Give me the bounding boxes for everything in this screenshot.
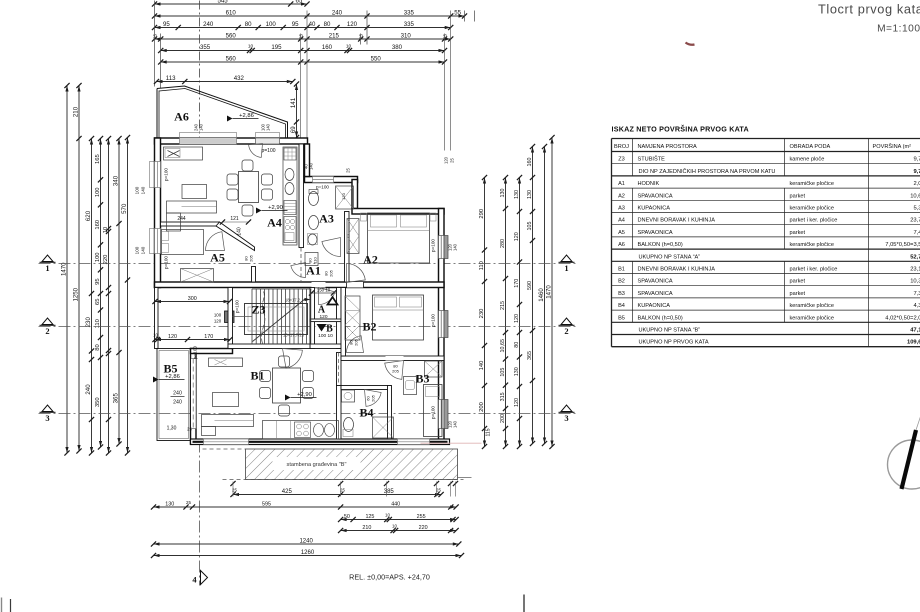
svg-text:130: 130 [165,501,174,507]
svg-text:DNEVNI BORAVAK I KUHINJA: DNEVNI BORAVAK I KUHINJA [638,267,716,273]
svg-text:215: 215 [500,301,506,310]
left page edge shadow [1,598,3,612]
svg-text:parket i ker. pločice: parket i ker. pločice [790,218,838,224]
sofa A4 [167,201,217,213]
svg-text:210: 210 [72,106,79,117]
svg-text:DIO NP ZAJEDNIČKIH PROSTORA NA: DIO NP ZAJEDNIČKIH PROSTORA NA PRVOM KAT… [639,168,776,175]
svg-text:350: 350 [95,397,101,407]
dim row bottom 1260 [154,555,462,557]
svg-text:p=100: p=100 [164,168,169,181]
section line 3-3 dash-dot [39,413,577,415]
wall B4 left vertical [337,386,342,440]
svg-text:keramičke pločice: keramičke pločice [790,315,834,321]
section marker 3 left [42,405,53,412]
svg-text:310: 310 [401,32,412,39]
coffee table B1 [213,393,239,407]
section line 1-1 dash-dot [39,263,577,265]
svg-text:545: 545 [218,0,229,4]
right dim col 1460 [544,147,546,444]
svg-text:NAMJENA PROSTORA: NAMJENA PROSTORA [638,144,698,150]
svg-text:105: 105 [500,368,506,377]
balcony right vertical dim 141/69 [296,84,298,138]
door A1 entrance [319,288,335,305]
nightstands A2 [361,213,367,221]
dim 150 10 vestibule line [312,292,337,294]
door A2 [347,264,366,283]
bottom tick cluster row [230,481,235,486]
window left wall 2 [155,229,161,254]
svg-text:B1: B1 [618,267,625,273]
svg-text:p=100: p=100 [431,406,436,419]
staircase diagonal arrow [253,299,306,342]
svg-text:25: 25 [186,500,191,505]
svg-text:p=100: p=100 [235,300,240,313]
svg-text:B3: B3 [415,372,429,386]
svg-text:B4: B4 [618,303,625,309]
svg-text:15×17,7/28: 15×17,7/28 [283,333,305,338]
svg-text:+2,90: +2,90 [297,392,312,398]
right dim col 130/280/215/105/315/200 [505,178,507,447]
svg-text:1470: 1470 [545,285,552,299]
svg-text:A5: A5 [210,251,225,265]
door A3 from A1 [322,238,341,257]
dim row bottom 130/25/595/440 [154,506,457,508]
section line 2-2 dash-dot [39,326,577,328]
svg-text:52,7: 52,7 [910,254,920,260]
svg-text:200: 200 [500,414,506,423]
svg-text:340: 340 [112,175,119,186]
svg-text:BALKON (h=0,50): BALKON (h=0,50) [638,315,683,321]
fireplace shelf A4 top-left [164,147,203,160]
wall A3 right upper [352,180,358,209]
balcony door top wall [256,138,280,144]
kitchen sink A4 [285,183,294,195]
svg-text:140: 140 [479,361,485,371]
svg-text:p=100: p=100 [431,239,436,252]
svg-text:+2,90: +2,90 [268,205,283,211]
door opening B3 [386,356,404,361]
left dim col 570 [127,138,129,454]
svg-text:OBRADA PODA: OBRADA PODA [790,144,831,150]
svg-text:POVRŠINA (m²: POVRŠINA (m² [873,143,912,150]
wall kitchen A4-A1 vertical [299,144,304,248]
window right B3 [439,400,445,429]
desk B3 [404,377,417,395]
svg-text:STUBIŠTE: STUBIŠTE [638,156,666,163]
red pen mark top [686,43,695,45]
svg-text:B1: B1 [250,369,264,383]
svg-text:A3: A3 [618,206,625,212]
svg-text:10,6: 10,6 [910,193,920,199]
svg-text:220: 220 [419,525,428,531]
svg-text:570: 570 [121,203,128,214]
balcony B5 rail [157,349,191,441]
svg-text:160: 160 [322,44,333,51]
svg-text:195: 195 [271,44,282,51]
wall stair block left vertical [228,288,233,349]
svg-text:+2,86: +2,86 [165,374,180,380]
door B1 entrance [283,349,303,369]
svg-text:10: 10 [346,44,352,50]
svg-text:365: 365 [112,393,119,404]
section marker 1 right [561,255,572,262]
top extension line cluster x154 [154,1,156,87]
door A6 balcony [249,144,263,158]
svg-text:A6: A6 [174,110,189,124]
svg-text:25: 25 [359,34,364,40]
top extension line cluster x360 [360,34,362,45]
svg-text:560: 560 [226,32,237,39]
staircase break line [262,292,265,344]
svg-text:80: 80 [324,21,331,28]
bed B2 double [373,295,424,340]
top extension line x464 [464,11,466,22]
svg-text:DNEVNI BORAVAK I KUHINJA: DNEVNI BORAVAK I KUHINJA [638,218,716,224]
wall vestibule right vertical [337,288,342,349]
svg-text:113: 113 [166,75,176,82]
svg-text:210: 210 [362,525,371,531]
window A3 top [313,177,334,183]
window B1 left [191,359,197,429]
svg-text:25: 25 [153,34,158,40]
bottom left page line [10,599,12,612]
window sill boxes outside left wall [150,162,155,188]
svg-text:165: 165 [95,154,101,164]
wall bottom exterior [191,439,450,445]
svg-text:1240: 1240 [299,538,313,544]
svg-text:130: 130 [514,190,520,199]
svg-text:1: 1 [45,263,49,273]
dim 300 mid-left [155,301,230,303]
wall B1 top [191,349,233,354]
wardrobe B3 [425,361,443,377]
svg-text:355: 355 [200,44,211,51]
svg-text:230: 230 [85,317,92,328]
svg-text:p=100: p=100 [164,256,169,269]
svg-text:109,6: 109,6 [907,340,920,346]
svg-text:280: 280 [500,239,506,248]
wardrobe A2 [347,219,359,254]
left dim col 210/1250 [78,86,80,452]
svg-text:A4: A4 [618,218,625,224]
svg-text:parket: parket [790,230,806,236]
svg-text:7,3: 7,3 [913,291,920,297]
svg-text:170: 170 [514,279,520,288]
svg-text:380: 380 [392,44,403,51]
svg-text:KUPAONICA: KUPAONICA [638,303,671,309]
svg-text:p=100: p=100 [193,346,198,359]
wall A left exterior [155,138,161,288]
shower A3 [336,186,354,209]
svg-text:1,30: 1,30 [167,426,177,432]
wall stairs bottom = B1 top [228,344,310,349]
svg-text:240: 240 [332,9,343,16]
svg-text:SPAVAONICA: SPAVAONICA [638,279,673,285]
chairs B1 [260,371,271,382]
svg-text:parket i ker. pločice: parket i ker. pločice [790,267,838,273]
svg-text:stambena građevina "B": stambena građevina "B" [287,462,347,468]
svg-text:100: 100 [135,186,140,194]
dim chain top row 25/560/25/215/25/310/25 [155,38,451,40]
dining table A4 [239,172,259,203]
section marker 1 left [42,255,53,262]
svg-text:335: 335 [404,9,415,16]
svg-text:A: A [318,305,326,316]
window bottom B3 [398,439,430,445]
svg-text:+2,86: +2,86 [239,113,254,119]
dim chain top row 355/10/195/160/10/380 [161,50,445,52]
svg-text:590: 590 [527,281,533,290]
svg-text:B4: B4 [359,406,373,420]
bed A2 double [368,213,430,263]
svg-text:365: 365 [527,351,533,360]
svg-text:69: 69 [290,126,297,133]
window right A2 [439,236,445,259]
svg-text:HODNIK: HODNIK [638,181,660,187]
masonry pier stairs left [225,311,235,323]
svg-text:560: 560 [226,55,237,62]
hatched band label box [273,457,361,470]
svg-text:UKUPNO NP STANA “B”: UKUPNO NP STANA “B” [639,328,701,334]
wall A5 top [161,222,220,226]
section marker 2 left [42,318,53,325]
svg-text:140: 140 [453,243,458,251]
svg-text:100: 100 [266,21,277,28]
svg-text:140: 140 [266,123,271,131]
svg-text:595: 595 [262,501,271,507]
window sill boxes outside top wall [180,133,237,138]
wall B4 top [341,386,391,390]
left dim col 620/230/240 etc [91,139,93,454]
svg-text:230: 230 [479,309,485,319]
svg-text:100: 100 [135,246,140,254]
svg-text:47,1: 47,1 [910,328,920,334]
svg-text:p=100: p=100 [261,148,275,154]
svg-text:A1: A1 [618,181,625,187]
svg-text:10,3: 10,3 [910,279,920,285]
wall B4 right vertical [388,386,392,440]
svg-text:BROJ: BROJ [614,144,629,150]
svg-text:parket: parket [790,193,806,199]
wall vestibule bottom [310,344,341,349]
svg-text:1260: 1260 [301,550,315,556]
svg-text:A3: A3 [319,212,334,226]
svg-text:200: 200 [479,402,485,412]
svg-text:205: 205 [392,369,399,374]
svg-text:10: 10 [153,333,158,338]
top extension line cluster x300 [300,34,302,138]
svg-text:A2: A2 [618,193,625,199]
kitchen counter B1 bottom [263,421,339,440]
svg-text:25: 25 [346,168,351,173]
svg-text:140: 140 [453,420,458,428]
svg-text:120: 120 [168,334,177,340]
balcony A6 left rail [156,89,158,138]
tv shelf B1 top [209,358,243,367]
section marker 2 right [561,318,572,325]
right dim col 160/130/590/365 [532,147,534,444]
svg-text:25: 25 [187,427,192,432]
dim chain top row 95/240/80/100/95/40/80/120/335 [155,27,451,29]
shower B4 [373,417,394,438]
staircase landing lines [233,316,253,318]
svg-text:160: 160 [527,158,533,167]
svg-text:315: 315 [500,392,506,401]
svg-text:keramičke pločice: keramičke pločice [790,206,834,212]
section marker 3 right [561,405,572,412]
svg-text:10: 10 [248,44,254,50]
svg-text:keramičke pločice: keramičke pločice [790,242,834,248]
svg-text:1250: 1250 [72,287,79,301]
door A1 to corridor second leaf [291,263,306,278]
window right B2 [439,311,445,338]
svg-text:B5: B5 [618,315,625,321]
wall B1-B2 corridor vertical [337,353,342,386]
svg-text:UKUPNO NP PRVOG KATA: UKUPNO NP PRVOG KATA [639,340,709,346]
svg-text:110: 110 [479,261,485,270]
svg-text:ISKAZ NETO POVRŠINA PRVOG KATA: ISKAZ NETO POVRŠINA PRVOG KATA [612,125,749,134]
svg-text:385: 385 [384,489,395,495]
washing machine A3 [305,253,318,266]
svg-text:SPAVAONICA: SPAVAONICA [638,230,673,236]
wall left lower (setback) [155,288,159,349]
svg-text:140: 140 [141,246,146,254]
svg-text:A5: A5 [618,230,625,236]
svg-text:7,05*0,50=3,5: 7,05*0,50=3,5 [885,242,920,248]
staircase stairwell rail rect [245,304,308,335]
wall B1 left exterior [191,349,197,445]
svg-text:100: 100 [95,252,101,262]
svg-text:25: 25 [436,488,441,493]
kitchen counter A4 [283,147,297,245]
door B4 [365,390,382,407]
dim row 113/432 above balcony [157,81,293,83]
existing building hatched band [246,449,458,480]
svg-text:140: 140 [237,227,243,236]
svg-text:parket: parket [790,279,806,285]
svg-text:A4: A4 [267,216,282,230]
svg-text:2: 2 [45,326,49,336]
svg-text:25: 25 [443,34,448,40]
kitchen crosshatch corner [284,148,296,160]
top extension line cluster x444 [444,34,446,151]
svg-text:80: 80 [245,21,252,28]
svg-text:170: 170 [204,334,213,340]
kitchen stove A4 hatched [284,201,296,215]
svg-text:Z3: Z3 [251,303,265,317]
svg-text:95: 95 [95,278,101,284]
svg-text:3: 3 [45,413,49,423]
svg-text:B3: B3 [618,291,625,297]
svg-text:10,65: 10,65 [500,339,506,353]
svg-text:95: 95 [163,21,170,28]
svg-text:255: 255 [417,514,426,520]
door A5 [206,232,225,251]
level mark +2,90 A4 [256,208,262,214]
door B3 [385,361,404,380]
balcony A6 outline [157,86,288,138]
coffee table A4 [182,185,207,199]
svg-text:3: 3 [564,413,568,423]
svg-text:UKUPNO NP STANA “A”: UKUPNO NP STANA “A” [639,254,701,260]
bathroom B4 toilet [344,418,354,432]
door opening A1 entrance in divider [312,282,326,288]
svg-text:kamene ploče: kamene ploče [790,157,825,163]
svg-text:120: 120 [514,398,520,407]
svg-text:2,0: 2,0 [913,181,920,187]
level mark +2,86 A6 [227,116,233,122]
section line 4 dash-dot vertical [199,441,201,586]
svg-text:2: 2 [564,326,568,336]
right dim col 130/120/170/120/80/130/120 [519,178,521,447]
left dim col small 10/220 segments [108,139,110,454]
svg-text:B2: B2 [362,320,376,334]
door B2 [347,336,364,353]
svg-text:95: 95 [292,21,299,28]
svg-text:REL. ±0,00=APS. +24,70: REL. ±0,00=APS. +24,70 [349,573,430,582]
svg-text:115: 115 [486,428,492,436]
svg-text:M=1:100: M=1:100 [877,24,920,35]
svg-text:140: 140 [199,123,204,131]
right dim col 290/110/230/140/200/115 [484,178,486,447]
svg-text:240: 240 [85,384,92,395]
svg-text:10: 10 [392,524,397,529]
svg-text:121: 121 [230,216,239,222]
dim row bottom 1240 [154,543,459,545]
svg-text:150 10: 150 10 [317,288,331,293]
svg-text:125: 125 [365,514,374,520]
left dim col 1470 [66,86,68,454]
svg-text:4,3: 4,3 [913,303,920,309]
svg-text:300: 300 [188,296,197,302]
bathroom B4 washbasin [342,390,355,402]
right dim col 1470 [551,138,553,447]
svg-text:205: 205 [249,254,254,261]
svg-text:120: 120 [214,319,222,324]
window bottom B1 [204,439,249,445]
svg-text:80: 80 [514,342,520,348]
svg-text:Z3: Z3 [618,157,625,163]
svg-text:610: 610 [226,9,237,16]
window left wall 1 [155,162,161,188]
chairs A4 dining [227,174,238,185]
svg-text:335: 335 [404,21,415,28]
wall B2 left vertical [341,288,346,357]
svg-text:50: 50 [344,514,350,520]
svg-text:244: 244 [177,216,186,222]
svg-text:205: 205 [354,338,359,345]
svg-text:SPAVAONICA: SPAVAONICA [638,291,673,297]
dining table B1 [273,368,301,403]
svg-text:141: 141 [290,97,297,108]
wall B2 bottom / B3 top [341,356,444,361]
svg-text:130: 130 [514,367,520,376]
svg-text:120: 120 [514,232,520,241]
svg-text:120: 120 [319,314,327,320]
dim chain top row 610/240/335/55 [155,15,465,17]
svg-text:130: 130 [500,189,506,198]
hatch band dashed extensions [203,448,246,450]
svg-text:18×17,2: 18×17,2 [285,298,301,303]
svg-text:1460: 1460 [538,288,545,302]
logo diagonal bar [902,430,917,489]
svg-text:65: 65 [295,0,302,4]
staircase Z3 treads [251,289,253,344]
dim row bottom 425/385 [233,494,441,496]
wall A2 top [352,209,444,215]
svg-text:keramičke pločice: keramičke pločice [790,303,834,309]
svg-text:120: 120 [514,314,520,323]
